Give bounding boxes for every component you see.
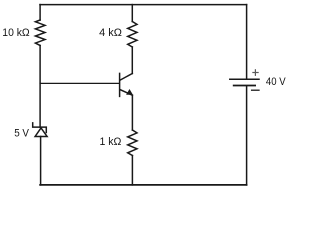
svg-text:5 V: 5 V bbox=[14, 128, 29, 140]
wire: base lead (left branch to transistor) bbox=[40, 82, 119, 84]
transistor emitter diagonal bbox=[120, 90, 132, 96]
wire: right branch upper (top rail to battery +) bbox=[246, 5, 248, 79]
zener diode 5V: cathode bar with bent tails bbox=[33, 123, 47, 133]
transistor base bar bbox=[119, 73, 121, 96]
svg-text:4 kΩ: 4 kΩ bbox=[99, 27, 122, 39]
wire: emitter lead down to 1k bbox=[131, 95, 133, 130]
wire: collector diagonal into transistor bbox=[120, 74, 132, 81]
resistor 10 kOhm bbox=[35, 20, 45, 46]
svg-text:1 kΩ: 1 kΩ bbox=[100, 136, 122, 148]
zener diode 5V: anode triangle (open) bbox=[35, 128, 47, 137]
battery 40V: positive plate (long) bbox=[230, 78, 259, 80]
svg-text:40 V: 40 V bbox=[266, 76, 286, 88]
battery 40V: minus terminal mark bbox=[252, 89, 259, 91]
wire: left branch lower (zener to bottom rail) bbox=[40, 137, 42, 185]
transistor emitter arrowhead bbox=[126, 89, 133, 95]
svg-text:10 kΩ: 10 kΩ bbox=[2, 27, 29, 39]
battery 40V: negative plate (short, thick) bbox=[234, 85, 255, 87]
wire: right branch lower (battery - to bottom rail) bbox=[246, 86, 248, 184]
wire: bottom rail bbox=[40, 184, 247, 186]
resistor 4 kOhm bbox=[128, 22, 137, 48]
wire: middle branch top stub (top rail to 4k) bbox=[131, 5, 133, 22]
battery plus terminal mark bbox=[252, 69, 258, 76]
wire: collector lead (4k bottom down to bend) bbox=[131, 47, 133, 74]
wire: 1k bottom to bottom rail bbox=[131, 156, 133, 185]
wire: left branch middle (10k bottom to zener, through base node) bbox=[39, 46, 41, 128]
wire: top rail (node between 10k, 4k, +40V) bbox=[40, 4, 247, 6]
wire: left branch upper stub bbox=[39, 5, 41, 20]
resistor 1 kOhm bbox=[128, 130, 137, 156]
